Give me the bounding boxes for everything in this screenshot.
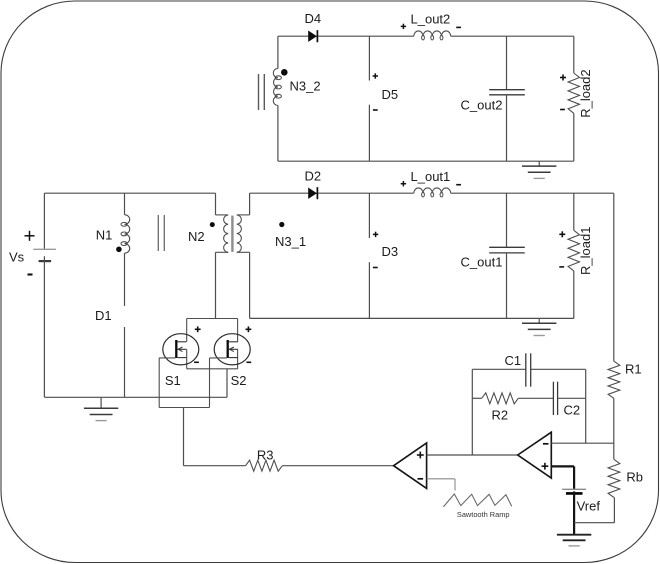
svg-text:D1: D1 bbox=[95, 308, 112, 323]
svg-text:L_out1: L_out1 bbox=[411, 169, 451, 184]
svg-text:D4: D4 bbox=[305, 11, 322, 26]
svg-text:Rb: Rb bbox=[626, 470, 643, 485]
svg-text:R_load1: R_load1 bbox=[578, 227, 593, 275]
svg-text:C_out1: C_out1 bbox=[461, 255, 503, 270]
svg-text:Sawtooth Ramp: Sawtooth Ramp bbox=[457, 510, 510, 519]
svg-text:D5: D5 bbox=[382, 87, 399, 102]
svg-text:D2: D2 bbox=[305, 168, 322, 183]
svg-text:N1: N1 bbox=[96, 228, 113, 243]
svg-text:R2: R2 bbox=[492, 408, 509, 423]
svg-text:S2: S2 bbox=[231, 373, 247, 388]
svg-text:C_out2: C_out2 bbox=[461, 97, 503, 112]
svg-text:N3_2: N3_2 bbox=[290, 79, 321, 94]
svg-text:R3: R3 bbox=[257, 447, 274, 462]
svg-text:Vs: Vs bbox=[9, 250, 25, 265]
svg-text:N2: N2 bbox=[188, 229, 205, 244]
svg-text:N3_1: N3_1 bbox=[275, 234, 306, 249]
svg-text:C1: C1 bbox=[505, 353, 522, 368]
svg-text:R_load2: R_load2 bbox=[578, 69, 593, 117]
svg-text:D3: D3 bbox=[382, 244, 399, 259]
svg-text:R1: R1 bbox=[625, 361, 642, 376]
svg-text:Vref: Vref bbox=[577, 498, 601, 513]
svg-text:C2: C2 bbox=[564, 403, 581, 418]
svg-text:S1: S1 bbox=[165, 373, 181, 388]
svg-text:L_out2: L_out2 bbox=[411, 12, 451, 27]
